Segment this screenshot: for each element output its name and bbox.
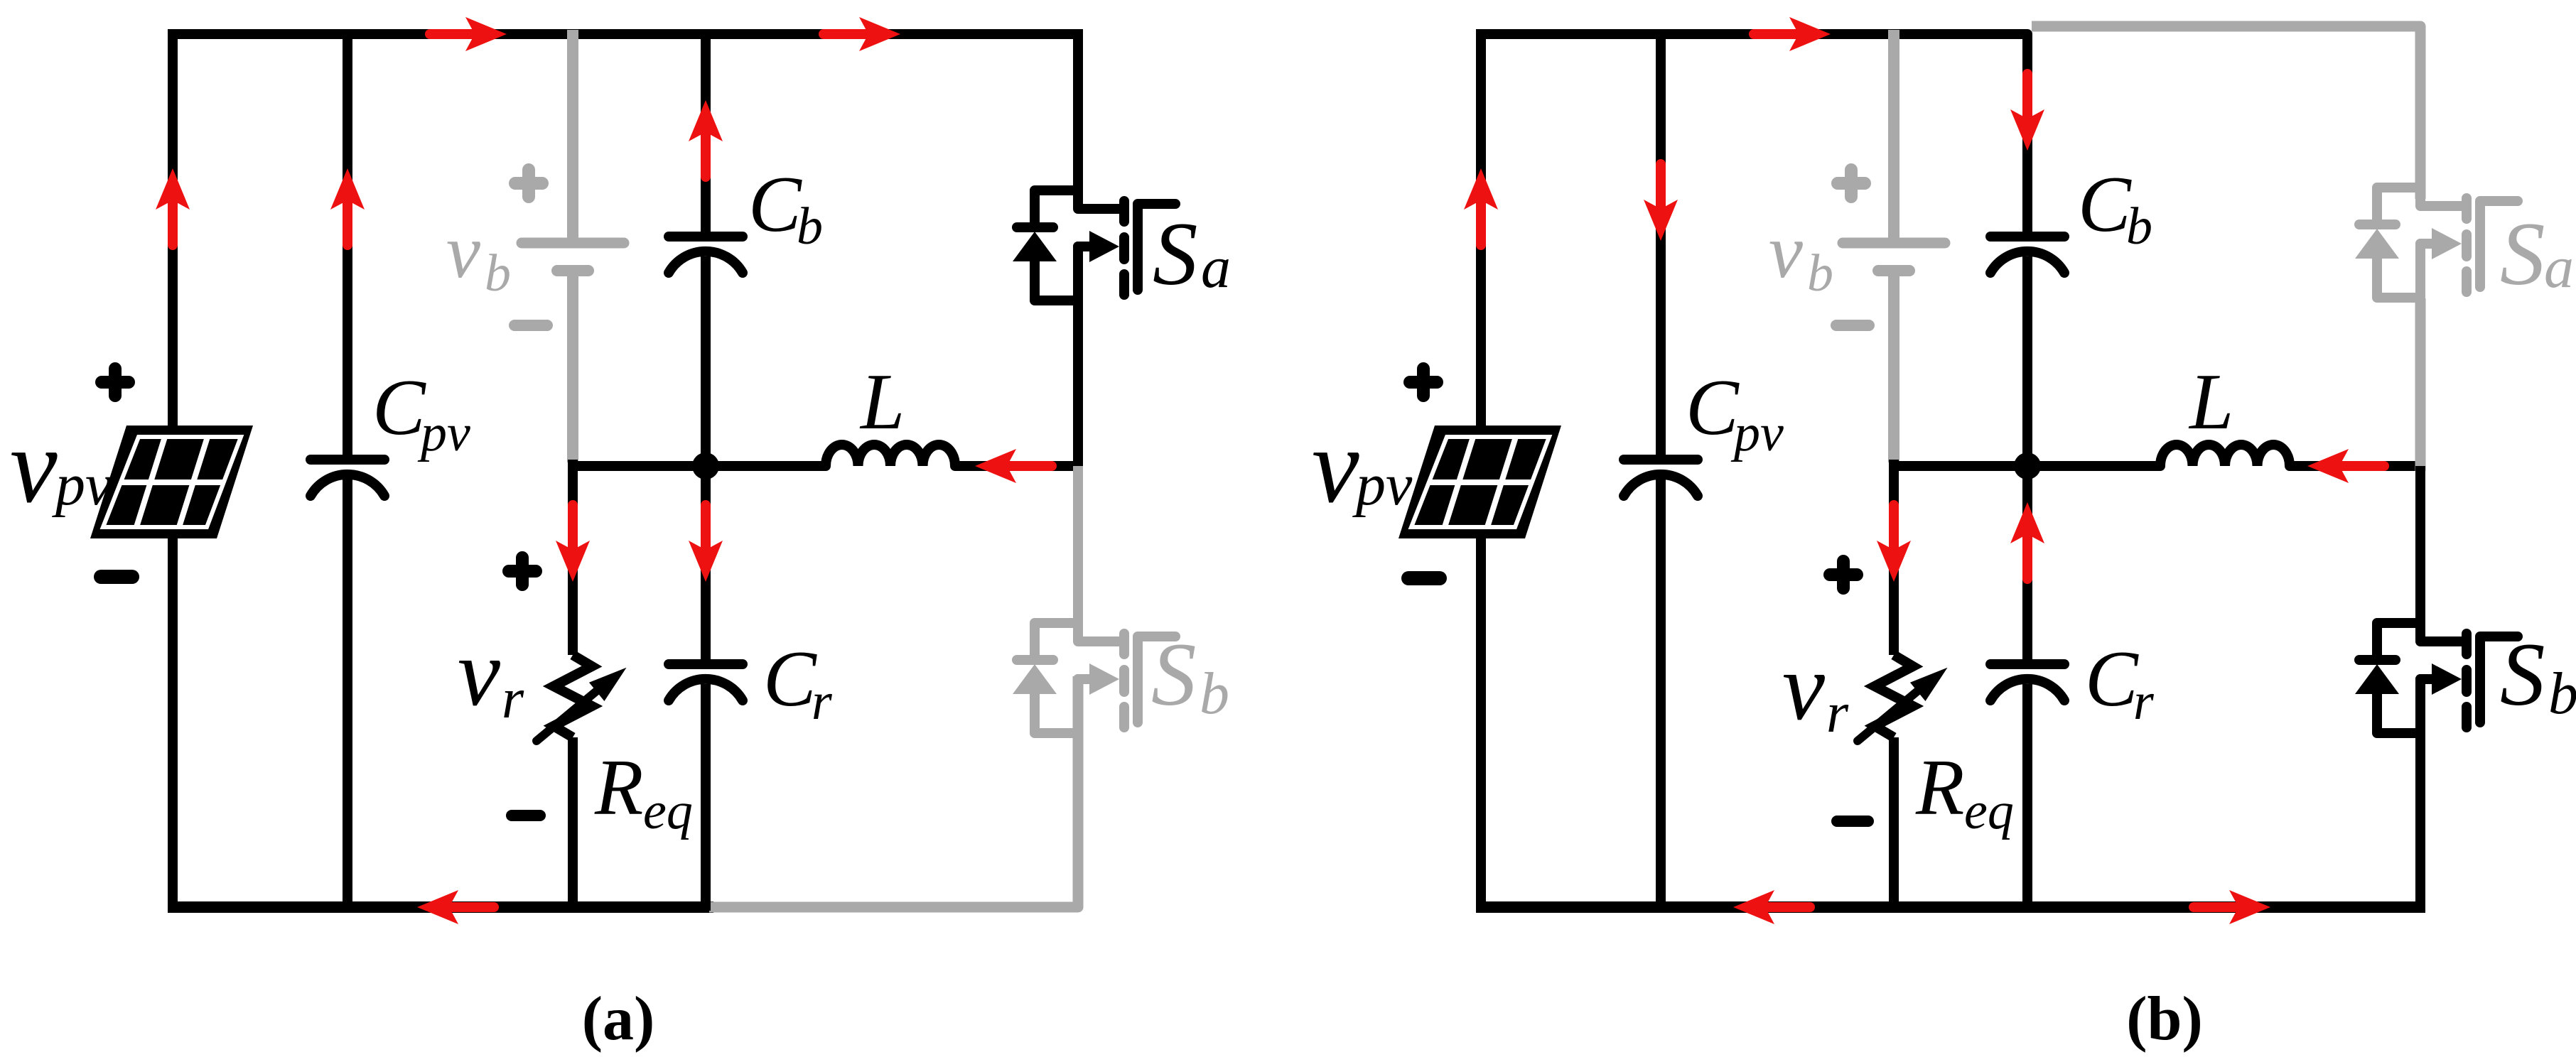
wire left vertical (a) <box>168 30 178 911</box>
labels (a) <box>10 161 1231 1053</box>
battery vb (a) <box>522 243 624 271</box>
arrow left col up (a) <box>156 168 190 245</box>
wire top rail + Cb corner (b) <box>1476 34 2027 232</box>
capacitor Cb (b) <box>1990 237 2064 273</box>
wire Cb branch upper (a) <box>701 30 711 232</box>
svg-text:R: R <box>1915 744 1964 832</box>
wire bottom rail + Sb source gray (a) <box>709 676 1078 907</box>
svg-text:S: S <box>2500 205 2545 304</box>
capacitor Cb (a) <box>669 237 743 273</box>
arrow top rail 1 (a) <box>430 17 507 51</box>
plus sign pv (b) <box>1410 369 1437 396</box>
transistor Sb (b) <box>2355 595 2518 738</box>
svg-text:v: v <box>458 620 500 726</box>
svg-text:pv: pv <box>417 404 470 462</box>
plus sign pv (a) <box>102 369 129 396</box>
labels (b) <box>1312 161 2576 1053</box>
svg-text:v: v <box>1782 634 1825 740</box>
battery vb branch gray lower (a) <box>567 276 578 462</box>
capacitor Cpv (b) <box>1624 460 1698 496</box>
svg-text:v: v <box>1769 210 1803 294</box>
arrow node branch up (b) <box>2010 502 2044 579</box>
transistor Sa (a) <box>1013 162 1175 305</box>
svg-text:C: C <box>2085 635 2139 723</box>
wire Sa source to mid row gray (b) <box>2415 298 2426 471</box>
red arrows (b) <box>1464 17 2384 924</box>
resistor Req (a) <box>537 655 634 741</box>
plus sign vb gray (a) <box>515 170 542 197</box>
arrow Cb down (b) <box>2010 74 2044 151</box>
svg-text:C: C <box>2078 161 2132 249</box>
svg-text:b: b <box>1200 661 1229 727</box>
wire Req branch upper (a) <box>568 460 578 655</box>
svg-text:R: R <box>594 744 643 832</box>
node dot (a) <box>692 453 719 479</box>
svg-text:L: L <box>2188 358 2233 446</box>
wire Cpv branch lower (a) <box>343 477 352 911</box>
arrow mid row left (a) <box>975 449 1052 483</box>
arrow Cpv up (a) <box>330 168 365 245</box>
arrow bottom rail left (b) <box>1733 890 1810 924</box>
wire Sa source to mid row (a) <box>1073 301 1083 471</box>
wire Cr branch lower (a) <box>701 684 711 911</box>
wire left vertical (b) <box>1476 30 1486 911</box>
battery vb (b) <box>1843 243 1945 271</box>
arrow Cr down (a) <box>689 505 723 582</box>
wire top rail (a) <box>168 29 1083 39</box>
solar panel vpv (a) <box>90 426 253 538</box>
svg-text:C: C <box>748 161 802 249</box>
svg-text:b: b <box>797 197 823 256</box>
svg-text:C: C <box>1686 364 1740 452</box>
battery vb branch gray lower (b) <box>1888 276 1899 462</box>
svg-text:C: C <box>372 364 426 452</box>
svg-text:b: b <box>2548 661 2576 727</box>
capacitor Cr (a) <box>669 664 743 700</box>
svg-text:b: b <box>1807 244 1833 303</box>
arrow Req down (b) <box>1877 505 1911 582</box>
wire Cpv branch upper (a) <box>343 30 352 455</box>
wire Req branch lower (b) <box>1889 737 1899 911</box>
wire Req branch lower (a) <box>568 737 578 911</box>
svg-text:eq: eq <box>643 782 693 840</box>
svg-text:b: b <box>2126 197 2152 256</box>
svg-text:r: r <box>812 673 833 731</box>
plus sign vb gray (b) <box>1838 170 1865 197</box>
minus sign vb gray (a) <box>514 320 547 331</box>
solar panel vpv (b) <box>1399 426 1561 538</box>
capacitor Cr (b) <box>1990 664 2064 700</box>
transistor Sb gray (a) <box>1013 595 1175 738</box>
svg-text:r: r <box>2133 673 2155 731</box>
svg-text:eq: eq <box>1964 782 2014 840</box>
inductor L (a) <box>826 445 955 466</box>
arrow bottom rail left (a) <box>417 890 494 924</box>
wire Cpv branch upper (b) <box>1656 30 1666 455</box>
wire middle horizontal to node (b) <box>1894 461 2160 471</box>
svg-text:r: r <box>1826 682 1849 744</box>
wire middle horizontal to node (a) <box>573 461 826 471</box>
wire Cpv branch lower (b) <box>1656 477 1666 911</box>
svg-text:(a): (a) <box>582 985 655 1053</box>
svg-text:S: S <box>2500 625 2545 725</box>
wire bottom rail (b) <box>1476 901 2425 913</box>
plus sign vr (a) <box>509 558 536 585</box>
svg-text:v: v <box>1312 407 1359 525</box>
inductor L (b) <box>2160 445 2290 466</box>
arrow top rail right (b) <box>1754 17 1831 51</box>
svg-text:pv: pv <box>1352 452 1413 518</box>
arrow left col up (b) <box>1464 168 1498 245</box>
svg-text:S: S <box>1151 625 1197 725</box>
wire Cb-node-Cr middle (b) <box>2022 256 2032 659</box>
wire Sb drain gray (a) <box>1073 466 1083 641</box>
svg-text:C: C <box>763 635 817 723</box>
red arrows (a) <box>156 17 1052 924</box>
wire Cb-node-Cr middle (a) <box>701 256 711 659</box>
wire Sb drain black (b) <box>2415 466 2425 641</box>
arrow bottom rail right (b) <box>2194 890 2270 924</box>
minus sign pv (b) <box>1408 571 1440 585</box>
wire top rail gray + Sa drain (b) <box>2032 26 2420 199</box>
svg-text:(b): (b) <box>2126 985 2203 1053</box>
battery vb branch gray upper (a) <box>567 30 578 238</box>
svg-text:pv: pv <box>52 452 112 518</box>
transistor Sa gray (b) <box>2355 159 2518 303</box>
node dot (b) <box>2014 453 2041 479</box>
minus sign vr (b) <box>1837 816 1868 827</box>
svg-text:a: a <box>1201 234 1231 300</box>
plus sign vr (b) <box>1830 561 1857 588</box>
battery vb branch gray upper (b) <box>1888 30 1899 238</box>
minus sign vr (a) <box>512 810 540 821</box>
svg-text:S: S <box>1153 205 1198 304</box>
arrow Cpv down (b) <box>1644 164 1678 241</box>
wire Sb source to bottom (b) <box>2415 678 2425 911</box>
arrow Req down (a) <box>556 505 590 582</box>
svg-text:a: a <box>2544 234 2574 300</box>
wire Sa drain vertical (a) <box>1073 30 1083 202</box>
minus sign vb gray (b) <box>1836 320 1869 331</box>
arrow Cb up (a) <box>689 100 723 177</box>
arrow top rail 2 (a) <box>824 17 900 51</box>
minus sign pv (a) <box>101 570 132 584</box>
arrow mid row left (b) <box>2307 449 2384 483</box>
wire bottom rail black (a) <box>168 901 713 913</box>
capacitor Cpv (a) <box>311 460 384 496</box>
wire Req branch upper (b) <box>1889 460 1899 655</box>
svg-text:v: v <box>446 210 480 294</box>
svg-text:b: b <box>485 244 511 303</box>
svg-text:v: v <box>10 407 58 525</box>
svg-text:r: r <box>502 668 524 730</box>
resistor Req (b) <box>1858 655 1955 741</box>
wire inductor to right column (a) <box>955 461 1078 471</box>
wire inductor to right column (b) <box>2290 461 2420 471</box>
svg-text:pv: pv <box>1730 404 1784 462</box>
svg-text:L: L <box>859 358 905 446</box>
wire Cr branch lower (b) <box>2022 684 2032 911</box>
